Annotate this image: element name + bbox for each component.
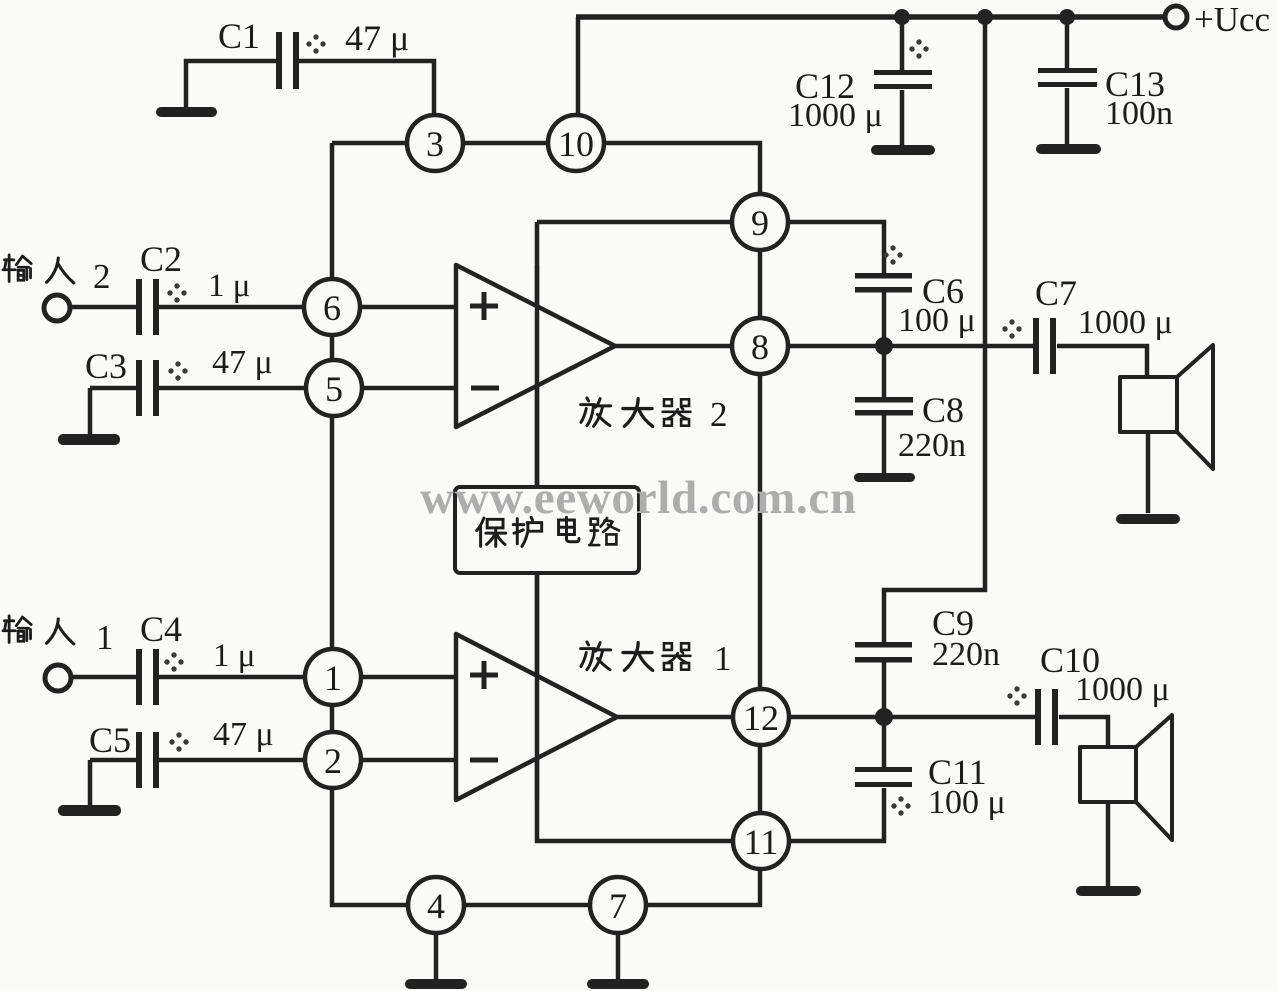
svg-text:1: 1 (324, 658, 342, 698)
svg-text:47 μ: 47 μ (212, 344, 273, 381)
svg-text:+Ucc: +Ucc (1194, 0, 1270, 39)
svg-text:10: 10 (558, 124, 594, 164)
svg-text:1: 1 (96, 618, 114, 657)
svg-text:1000 μ: 1000 μ (1078, 304, 1173, 341)
svg-text:C1: C1 (218, 16, 260, 56)
svg-text:C2: C2 (140, 239, 182, 279)
svg-text:9: 9 (751, 203, 769, 243)
svg-text:2: 2 (93, 257, 111, 296)
svg-text:2: 2 (324, 741, 342, 781)
svg-text:7: 7 (609, 886, 627, 926)
svg-text:5: 5 (325, 369, 343, 409)
svg-text:C8: C8 (922, 390, 964, 430)
svg-text:3: 3 (426, 124, 444, 164)
svg-text:47 μ: 47 μ (213, 716, 274, 753)
svg-text:220n: 220n (898, 427, 966, 464)
svg-text:C5: C5 (89, 720, 131, 760)
svg-text:2: 2 (710, 395, 728, 434)
svg-text:1000 μ: 1000 μ (788, 97, 883, 134)
svg-text:1: 1 (714, 639, 732, 678)
svg-text:C4: C4 (140, 609, 182, 649)
svg-text:C3: C3 (85, 346, 127, 386)
svg-text:1000 μ: 1000 μ (1075, 671, 1170, 708)
svg-text:11: 11 (744, 822, 779, 862)
svg-text:100 μ: 100 μ (898, 302, 976, 339)
svg-text:1 μ: 1 μ (213, 638, 255, 674)
svg-text:www.eeworld.com.cn: www.eeworld.com.cn (420, 472, 857, 524)
svg-text:4: 4 (427, 886, 445, 926)
svg-text:C7: C7 (1035, 273, 1077, 313)
svg-text:220n: 220n (932, 636, 1000, 673)
svg-text:100 μ: 100 μ (928, 784, 1006, 821)
svg-text:12: 12 (743, 698, 779, 738)
svg-text:6: 6 (323, 288, 341, 328)
svg-text:47 μ: 47 μ (345, 18, 409, 58)
svg-text:100n: 100n (1105, 95, 1173, 132)
svg-text:8: 8 (751, 327, 769, 367)
svg-text:1 μ: 1 μ (208, 268, 250, 304)
